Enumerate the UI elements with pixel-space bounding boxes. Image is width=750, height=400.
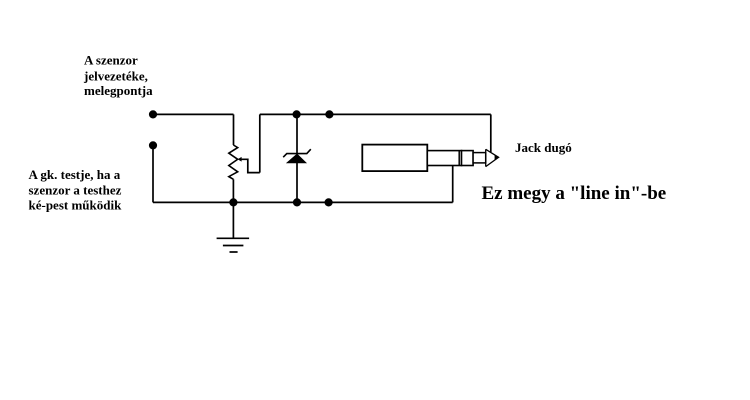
zener diode D1 cathode lead bbox=[296, 114, 298, 153]
potentiometer R1 (zigzag resistor body) bbox=[229, 145, 238, 179]
wire: top-left horizontal from sensor terminal to potentiometer top bbox=[153, 113, 234, 115]
svg-text:Jack dugó: Jack dugó bbox=[515, 140, 572, 155]
svg-text:ké-pest működik: ké-pest működik bbox=[29, 197, 123, 212]
node: junction bottom rail / zener anode bbox=[293, 198, 301, 206]
wire: wiper vertical up to top rail bbox=[259, 114, 261, 172]
svg-text:Ez megy a "line in"-be: Ez megy a "line in"-be bbox=[482, 183, 667, 204]
node: sensor signal terminal (top-left) bbox=[149, 110, 157, 118]
svg-text:szenzor a testhez: szenzor a testhez bbox=[29, 182, 122, 197]
wire: potentiometer bottom lead down to bottom rail bbox=[232, 179, 234, 202]
zener diode D1 anode lead bbox=[296, 163, 298, 203]
node: junction on bottom rail (right of zener) bbox=[325, 198, 333, 206]
ground bbox=[217, 202, 250, 252]
svg-text:A gk. testje, ha a: A gk. testje, ha a bbox=[29, 167, 121, 182]
jack plug J1 body bbox=[362, 145, 427, 172]
zener diode D1 body (filled triangle) bbox=[287, 154, 306, 163]
wire: potentiometer top lead (vertical) bbox=[233, 114, 235, 145]
label: A szenzor jelvezetéke, melegpontja bbox=[83, 53, 153, 99]
wire: left ground branch (vertical from lower-left terminal) bbox=[152, 145, 154, 202]
jack plug J1 tip (cone with point) bbox=[486, 149, 500, 166]
svg-text:A szenzor: A szenzor bbox=[84, 53, 138, 68]
label: A gk. testje, ha a szenzor a testhez ké-pest működik bbox=[29, 167, 123, 212]
wire: top rail from wiper to jack tip feed bbox=[260, 113, 491, 115]
jack plug J1 shaft (sleeve) bbox=[427, 151, 461, 166]
wire: jack tip feed (vertical down to plug tip) bbox=[490, 114, 492, 152]
jack plug J1 ring segment bbox=[462, 151, 474, 166]
potentiometer R1 wiper arrow bbox=[238, 157, 260, 173]
svg-text:melegpontja: melegpontja bbox=[84, 83, 153, 98]
node: junction bottom rail / potentiometer + ground bbox=[229, 198, 237, 206]
node: junction top rail / zener cathode bbox=[293, 110, 301, 118]
svg-text:jelvezetéke,: jelvezetéke, bbox=[83, 69, 148, 84]
node: ground terminal (lower-left) bbox=[149, 141, 157, 149]
wire: bottom rail bbox=[153, 201, 453, 203]
jack plug J1 tip neck bbox=[473, 153, 486, 163]
jack plug J1 insulator ring (double line) bbox=[458, 151, 460, 166]
zener diode D1 cathode bar with bent ends bbox=[283, 149, 311, 157]
wire: bottom rail riser to jack sleeve bbox=[452, 166, 454, 203]
node: junction on top rail (right of zener) bbox=[325, 110, 333, 118]
